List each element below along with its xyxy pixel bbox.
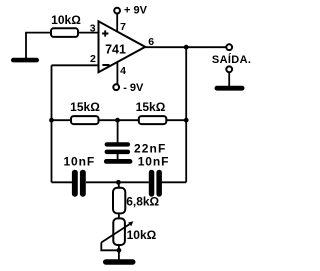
junction node output [184,45,189,50]
svg-text:3: 3 [90,22,96,34]
ground (22nF) [104,159,132,164]
svg-text:6,8kΩ: 6,8kΩ [126,195,159,209]
capacitor C2 10nF [63,155,95,197]
-9V terminal [113,82,144,94]
node wiper junction [117,248,122,253]
node left rail / 15k row [49,118,54,123]
wire pot to ground [118,245,120,260]
wire R1 to pin 3 [78,32,99,34]
svg-text:10kΩ: 10kΩ [51,13,81,27]
node 10nF midpoint [116,180,121,185]
wiper wire of P1 [101,243,119,251]
right rail wire [185,47,187,182]
potentiometer P1 10k [101,218,156,245]
15k row wire [52,119,187,121]
pin 6 label [148,36,154,48]
capacitor C3 10nF [138,155,170,197]
output wire pin6 to SAIDA [145,46,226,48]
capacitor C1 22nF [105,120,167,159]
+9V terminal [114,4,147,16]
svg-text:- 9V: - 9V [123,82,144,94]
wire ground to R1 [26,33,51,58]
svg-text:15kΩ: 15kΩ [136,100,166,114]
pin 7 wire [117,14,126,33]
svg-text:741: 741 [105,42,126,56]
ground (SAIDA) [215,86,245,91]
pin 2 label [90,53,96,65]
wire R4 to pot [118,213,120,218]
svg-text:2: 2 [90,53,96,65]
svg-text:SAÍDA.: SAÍDA. [212,53,251,66]
resistor R4 6,8k [113,182,160,213]
10nF row wire [52,181,187,183]
resistor R3 15k [136,100,167,124]
op-amp U1 741 [99,21,146,72]
left rail wire [51,65,53,182]
resistor R2 15k [70,100,100,124]
svg-text:22nF: 22nF [134,141,166,155]
svg-text:10kΩ: 10kΩ [127,228,157,242]
pin 3 label [90,22,96,34]
svg-text:4: 4 [120,65,126,77]
node right rail / 15k row [184,118,189,123]
ground (bottom) [103,259,136,264]
SAIDA ground terminal [226,66,232,86]
wire pin 2 to left rail [52,64,99,66]
svg-text:15kΩ: 15kΩ [70,100,100,114]
svg-text:10nF: 10nF [63,155,95,169]
ground (input, top-left) [11,58,39,63]
node 15k midpoint [115,118,120,123]
resistor R1 10k [51,13,81,37]
svg-text:10nF: 10nF [138,155,170,169]
svg-text:7: 7 [120,21,126,33]
SAIDA terminal [212,44,251,66]
svg-text:6: 6 [148,36,154,48]
svg-text:+ 9V: + 9V [124,4,148,16]
pin 4 wire [117,62,126,85]
